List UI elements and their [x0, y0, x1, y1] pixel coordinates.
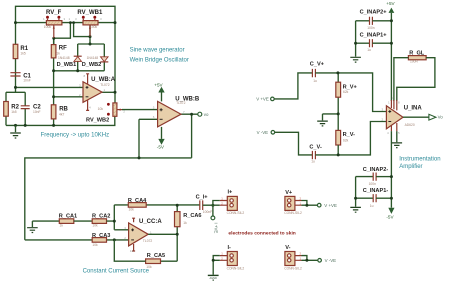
connector J V+ CONN-SIL2 [284, 190, 302, 215]
wire R_GL loop right [397, 58, 435, 101]
wire C_V+ to R_V+ node [315, 72, 338, 74]
capacitor C_V+ [310, 62, 325, 83]
wire R2 C2 box [6, 92, 25, 125]
supply -5V U_WB:B [157, 127, 165, 150]
resistor R_CA3 [92, 233, 110, 247]
caption sine wave generator [130, 47, 189, 63]
ground R_V divider [317, 114, 338, 126]
supply +5V U_WB:B [154, 82, 164, 101]
svg-text:U_INA: U_INA [404, 106, 423, 112]
svg-text:+5V: +5V [386, 1, 395, 6]
connector J I- CONN-SIL2 [220, 245, 245, 270]
capacitor C_V- [309, 145, 322, 164]
caption instrumentation amplifier [399, 157, 440, 170]
svg-text:11: 11 [130, 249, 133, 253]
wire U_WB:A output [102, 91, 115, 93]
diode D_WB1 [57, 56, 82, 68]
wire V- pins to net pin [302, 256, 318, 261]
svg-text:Vo: Vo [438, 115, 444, 120]
wire caps- left rail [355, 177, 357, 207]
svg-text:Wein Bridge Oscillator: Wein Bridge Oscillator [130, 57, 189, 63]
op-amp U_WB:A [79, 74, 116, 111]
resistor R_CA6 [175, 205, 202, 234]
diode D_WB2 [82, 56, 109, 68]
ground caps+ [350, 57, 361, 62]
caption frequency [41, 133, 110, 139]
resistor RF [51, 45, 67, 58]
wire C_I+ to I+ connector [203, 201, 220, 217]
op-amp U_INA AD620 [382, 96, 423, 135]
net pin V+VE lower [317, 203, 337, 208]
svg-text:62k: 62k [343, 139, 349, 143]
svg-text:Instrumentation: Instrumentation [399, 157, 440, 163]
svg-text:R_V-: R_V- [343, 132, 356, 138]
svg-text:+5V: +5V [154, 82, 163, 87]
resistor R_CA4 [128, 198, 147, 211]
wire R_GL loop left [394, 58, 409, 101]
capacitor C_INAP1+ [356, 32, 392, 52]
svg-text:vo: vo [204, 112, 209, 117]
svg-text:RV_WB2: RV_WB2 [86, 117, 109, 123]
svg-text:V +VE: V +VE [324, 203, 337, 208]
wire U_WB:B minus input [139, 119, 158, 158]
svg-text:C_I+: C_I+ [196, 194, 209, 200]
svg-text:D_WB1: D_WB1 [57, 62, 77, 68]
wire U_WB:B output [181, 113, 198, 115]
svg-text:CONN-SIL2: CONN-SIL2 [227, 266, 245, 270]
svg-text:10k: 10k [92, 243, 98, 247]
wire R_CA1 to R_CA2 [74, 220, 92, 222]
ground I- electrodes [208, 275, 219, 280]
svg-text:AGND: AGND [209, 276, 217, 280]
junction dot V+ [305, 204, 308, 207]
junction dots R_V network [336, 71, 339, 156]
svg-text:electrodes connected to skin: electrodes connected to skin [228, 231, 295, 237]
svg-text:V+: V+ [285, 190, 293, 196]
wire R_CA2 junction vertical [107, 205, 129, 230]
svg-text:4k7: 4k7 [59, 112, 64, 116]
junction dots current source [113, 204, 215, 242]
connector J V- CONN-SIL2 [284, 245, 302, 270]
junction dot I- [212, 259, 215, 262]
resistor R1 [13, 44, 29, 58]
wire diode box [54, 44, 105, 71]
svg-text:Sine wave generator: Sine wave generator [130, 47, 185, 53]
wire +5V rail to V+ pin [390, 21, 392, 101]
svg-text:V -VE: V -VE [257, 130, 269, 135]
wire plus input path INA [338, 73, 387, 112]
svg-text:C_INAP1-: C_INAP1- [363, 188, 389, 194]
wire caps+ left rail [355, 21, 357, 57]
output pin vo circle [198, 112, 209, 117]
wire INA output [403, 116, 429, 118]
junction dots caps- [354, 175, 393, 200]
svg-text:1k: 1k [183, 221, 187, 225]
wire minus input rail R_CA3 [25, 239, 129, 241]
wire V+ pins to net pin [302, 201, 318, 206]
supply -5V INA [386, 208, 394, 220]
svg-text:TL072: TL072 [143, 239, 153, 243]
svg-text:C_INAP2+: C_INAP2+ [360, 10, 388, 16]
svg-text:1k: 1k [60, 224, 64, 228]
svg-text:1k: 1k [56, 51, 60, 55]
svg-text:AD620: AD620 [405, 123, 415, 127]
wire RF RB minus chain [53, 38, 55, 125]
connector J I+ CONN-SIL2 [220, 189, 245, 215]
wire second rail node A [16, 22, 84, 24]
net pin V-VE lower [318, 258, 336, 263]
capacitor C1 [10, 73, 31, 83]
capacitor C_INAP1- [356, 188, 392, 208]
wire V+VE to C_V+ [274, 73, 312, 99]
svg-text:1u: 1u [313, 79, 317, 83]
svg-text:100nF: 100nF [203, 210, 212, 214]
net pin I+VE circle [211, 216, 219, 233]
capacitor C_INAP2+ [356, 10, 392, 30]
potentiometer RV_WB1 [69, 10, 103, 36]
potentiometer RV_F [43, 10, 66, 38]
resistor R_V- [336, 130, 355, 155]
resistor R_CA1 [59, 213, 77, 227]
wire R_CA5 to minus input [114, 240, 145, 261]
wire U_CC:A output feedback [148, 234, 177, 261]
net arrow Vo output [429, 114, 443, 120]
wire RV_WB2 wiper to U_WB:B [122, 109, 158, 111]
wire I- pins to ground [213, 256, 220, 275]
svg-text:1N4148: 1N4148 [58, 56, 70, 60]
resistor RB [51, 105, 68, 119]
svg-text:V +VE: V +VE [256, 97, 269, 102]
resistor R_V+ [336, 73, 358, 130]
svg-text:100R: 100R [410, 60, 419, 64]
svg-text:1k5: 1k5 [20, 52, 25, 56]
wire ground rail oscillator [6, 116, 115, 125]
svg-text:100n: 100n [367, 26, 375, 30]
wire RV_F loop [54, 23, 71, 45]
ground caps- [350, 207, 361, 212]
junction dots caps+ [354, 19, 393, 44]
resistor R2 [4, 102, 20, 117]
resistor R_GL [408, 50, 426, 63]
svg-text:10k: 10k [92, 224, 98, 228]
svg-text:Frequency -> upto 10KHz: Frequency -> upto 10KHz [41, 133, 110, 139]
junction dots U_WB:B [138, 113, 194, 160]
wire plus input U_WB:A [16, 86, 84, 88]
svg-text:TL072: TL072 [100, 83, 110, 87]
junction dot R_CA2 node [113, 220, 116, 223]
capacitor C_I+ [196, 194, 213, 214]
svg-text:CONN-SIL2: CONN-SIL2 [227, 211, 245, 215]
svg-text:TL072: TL072 [176, 101, 186, 105]
wire ground to R_CA1 [32, 220, 59, 222]
trimmer RV_WB2 [86, 103, 125, 124]
svg-text:D_WB2: D_WB2 [82, 62, 102, 68]
svg-text:Amplifier: Amplifier [399, 164, 422, 170]
junction dot V- [305, 259, 308, 262]
svg-text:I+: I+ [228, 189, 234, 195]
wire V- pin rail down [390, 131, 392, 208]
wire R1 C1 chain [15, 59, 17, 93]
op-amp U_CC:A [124, 218, 162, 253]
ground REF pin INA [392, 131, 403, 148]
resistor R_CA2 [92, 213, 110, 227]
svg-text:10k: 10k [98, 107, 104, 111]
svg-text:1u: 1u [370, 204, 374, 208]
svg-text:10nF: 10nF [33, 110, 41, 114]
svg-text:10nF: 10nF [23, 78, 31, 82]
svg-text:62k: 62k [343, 90, 349, 94]
svg-text:RF: RF [59, 46, 67, 52]
svg-text:RV_WB1: RV_WB1 [77, 10, 103, 16]
caption constant current source [83, 268, 150, 274]
svg-text:-5V: -5V [157, 145, 165, 150]
svg-text:1k5: 1k5 [11, 110, 16, 114]
caption electrodes connected to skin [228, 231, 295, 237]
wire top feedback rail [16, 6, 116, 44]
capacitor C_INAP2- [356, 167, 392, 186]
svg-text:C_V+: C_V+ [310, 62, 325, 68]
svg-text:1u: 1u [367, 48, 371, 52]
svg-text:I-: I- [228, 245, 232, 251]
wire R_CA4 line [114, 204, 199, 206]
svg-text:100k: 100k [44, 25, 52, 29]
wire minus input U_WB:A [54, 96, 83, 98]
wire feedback rail to current source [25, 114, 192, 240]
svg-text:C_V-: C_V- [309, 145, 322, 151]
svg-text:100n: 100n [369, 182, 377, 186]
svg-text:RV_F: RV_F [46, 10, 62, 16]
svg-text:CONN-SIL2: CONN-SIL2 [284, 211, 302, 215]
resistor R_CA5 [146, 253, 166, 269]
svg-text:R_CA6: R_CA6 [183, 213, 201, 219]
svg-text:C_INAP1+: C_INAP1+ [360, 32, 388, 38]
op-amp U_WB:B [153, 96, 200, 127]
junction dots oscillator [14, 21, 117, 127]
svg-text:-5V: -5V [386, 214, 394, 219]
supply +5V INA [386, 1, 395, 21]
svg-text:CONN-SIL2: CONN-SIL2 [284, 266, 302, 270]
svg-text:V-: V- [285, 245, 290, 251]
net pin V-VE upper [257, 130, 275, 135]
svg-text:V -VE: V -VE [325, 258, 337, 263]
svg-text:U_CC:A: U_CC:A [139, 219, 162, 225]
capacitor C2 [21, 104, 42, 114]
net pin V+VE upper [256, 97, 274, 102]
svg-text:10k: 10k [129, 208, 135, 212]
wire right rail [114, 23, 116, 103]
svg-text:1u: 1u [311, 160, 315, 164]
wire RV_WB1 loop [74, 23, 90, 44]
svg-text:Constant Current Source: Constant Current Source [83, 268, 150, 274]
ground oscillator [10, 125, 21, 138]
wire RV_WB1 right to rail [98, 22, 115, 24]
ground R_CA1 [27, 221, 38, 232]
svg-text:1N4148: 1N4148 [87, 56, 99, 60]
svg-text:100k: 100k [90, 25, 98, 29]
svg-text:I +VE: I +VE [214, 223, 219, 234]
wire minus input path INA [315, 122, 386, 155]
svg-text:C_INAP2-: C_INAP2- [363, 167, 389, 173]
wire V-VE to C_V- [275, 132, 312, 155]
